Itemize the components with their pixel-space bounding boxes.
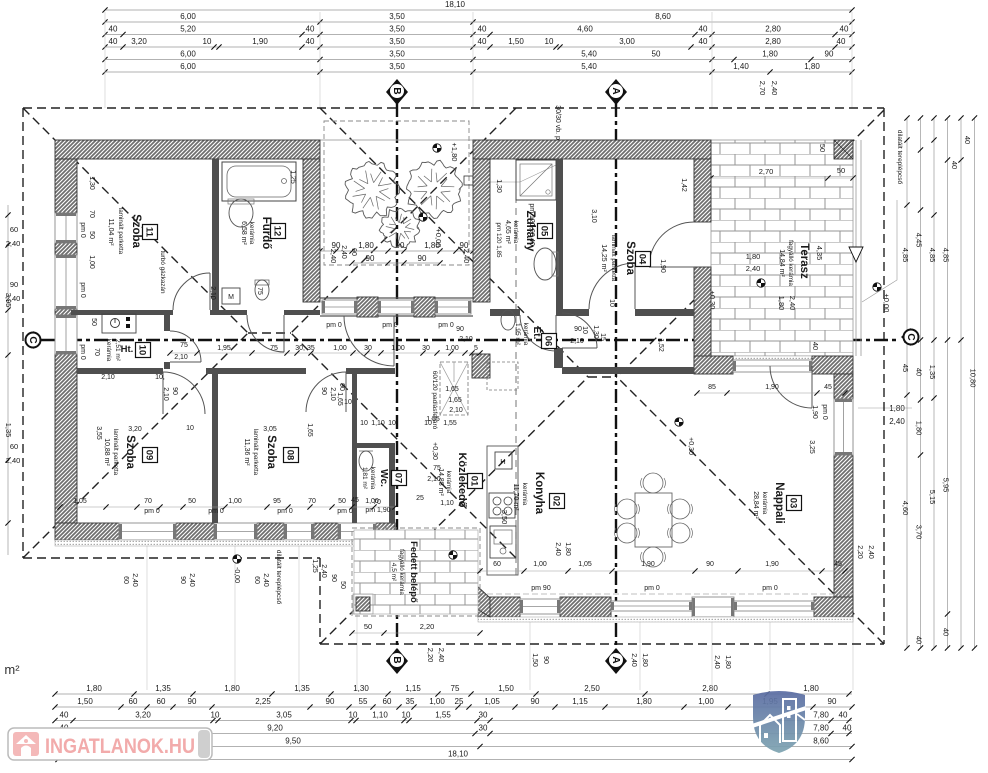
svg-text:3,05: 3,05 [263, 426, 277, 433]
guide line [234, 546, 236, 690]
porch eave line [320, 139, 473, 141]
wall nappali-terrace pier [694, 356, 733, 374]
right dimension line [974, 118, 976, 648]
svg-text:2,50: 2,50 [584, 684, 600, 693]
guide line [769, 617, 771, 690]
svg-text:70: 70 [144, 498, 152, 505]
svg-text:dilatált tereplépcső: dilatált tereplépcső [896, 130, 903, 185]
right dimension line [947, 118, 949, 648]
svg-text:A: A [610, 656, 621, 663]
wall szoba09-08 divider [212, 374, 218, 523]
svg-text:5,95: 5,95 [942, 478, 951, 493]
svg-text:2,40: 2,40 [867, 545, 874, 559]
guide line [319, 12, 321, 108]
svg-text:4,60: 4,60 [577, 25, 593, 34]
svg-text:50: 50 [338, 498, 346, 505]
chair [643, 473, 663, 493]
svg-text:60: 60 [129, 697, 138, 706]
svg-text:C: C [27, 336, 38, 343]
svg-text:pm 0: pm 0 [762, 585, 778, 592]
svg-text:1,00: 1,00 [228, 498, 242, 505]
wall zuhany-szoba04 divider [556, 159, 563, 313]
svg-text:pm 0: pm 0 [326, 322, 342, 329]
room number 08 [284, 448, 299, 463]
guide line [104, 12, 106, 108]
wall porch pier 1 [357, 297, 378, 317]
svg-text:3,50: 3,50 [500, 510, 509, 525]
svg-text:+0,30: +0,30 [687, 437, 694, 455]
wall corridor bottom 2 [206, 368, 306, 374]
svg-text:3,00: 3,00 [619, 37, 635, 46]
svg-text:18,10: 18,10 [448, 750, 469, 759]
chair [670, 523, 690, 543]
dimension chain top line 5 [105, 59, 852, 61]
svg-text:-0,00: -0,00 [233, 567, 240, 583]
svg-text:3,25: 3,25 [808, 440, 815, 454]
svg-text:pm 120: pm 120 [528, 203, 535, 226]
svg-text:2,10: 2,10 [174, 354, 188, 361]
watermark shield [752, 691, 806, 753]
wall corridor top stub [210, 310, 247, 315]
svg-text:90: 90 [366, 254, 375, 263]
svg-text:5,15: 5,15 [928, 490, 937, 505]
terrace insulation strip [708, 356, 853, 362]
dimension chain top line 4 [105, 46, 852, 48]
svg-text:30: 30 [479, 711, 488, 720]
svg-text:2,25: 2,25 [255, 697, 271, 706]
roof hip inner-top [291, 108, 516, 333]
tree 2 [407, 160, 463, 218]
svg-text:laminált parketta: laminált parketta [610, 235, 617, 282]
svg-text:75: 75 [256, 287, 263, 295]
dimension chain bottom line 3 [55, 720, 852, 722]
svg-text:30: 30 [364, 345, 372, 352]
svg-text:1,00: 1,00 [445, 345, 459, 352]
svg-text:4,35: 4,35 [815, 246, 824, 261]
wall left segment [55, 309, 77, 315]
svg-text:1,00: 1,00 [88, 255, 95, 269]
svg-text:1,65: 1,65 [445, 386, 459, 393]
svg-text:11: 11 [144, 227, 155, 238]
svg-text:4,85: 4,85 [901, 248, 910, 263]
svg-text:Terasz: Terasz [798, 243, 810, 279]
svg-text:kerámia: kerámia [369, 467, 376, 490]
svg-text:fagyálló kerámia: fagyálló kerámia [398, 549, 405, 595]
svg-text:07: 07 [393, 473, 404, 484]
right tick [958, 645, 963, 650]
svg-text:40: 40 [915, 368, 924, 376]
wall porch-right [473, 159, 490, 302]
svg-text:1,10: 1,10 [371, 420, 385, 427]
wall bottom-right segment [814, 597, 853, 617]
logo box [8, 728, 212, 760]
porch dim row 2 [352, 262, 440, 264]
right dimension line [933, 118, 935, 648]
wall wc top [352, 443, 390, 448]
window left 2 [55, 255, 77, 309]
right tick [918, 397, 923, 402]
svg-text:40: 40 [942, 628, 951, 636]
svg-text:40: 40 [837, 37, 846, 46]
svg-text:Szoba: Szoba [624, 241, 636, 275]
svg-text:40: 40 [950, 161, 959, 169]
svg-text:70: 70 [93, 348, 100, 356]
room number 11 [143, 225, 158, 240]
level marker terrace [757, 279, 765, 287]
guide line [711, 617, 713, 690]
svg-text:50: 50 [90, 318, 97, 326]
section line A-A [615, 103, 617, 650]
shower tray [516, 160, 556, 200]
svg-text:1,30: 1,30 [88, 176, 95, 190]
svg-text:40: 40 [528, 238, 535, 246]
terrace step edge 2 [860, 140, 862, 356]
wall nappali right upper [834, 374, 853, 399]
section marker C right [901, 328, 911, 346]
guide line [472, 12, 474, 108]
svg-text:2,40: 2,40 [262, 573, 269, 587]
wall zuhany-szoba04 bottom A [490, 309, 520, 316]
right tick [931, 645, 936, 650]
svg-text:1,10: 1,10 [372, 711, 388, 720]
svg-text:1,00: 1,00 [533, 561, 547, 568]
wall top-left block [55, 140, 320, 159]
svg-text:10: 10 [186, 425, 194, 432]
svg-text:Ht.: Ht. [121, 344, 134, 355]
insulation strip bottom-right [478, 617, 853, 622]
svg-text:40: 40 [963, 136, 972, 144]
svg-text:95: 95 [273, 498, 281, 505]
svg-text:3,20: 3,20 [128, 426, 142, 433]
wall left segment [55, 159, 77, 213]
svg-text:90: 90 [171, 387, 178, 395]
dimension chain top line 2 [105, 21, 852, 23]
svg-text:±0,00: ±0,00 [882, 294, 891, 313]
svg-text:90: 90 [188, 697, 197, 706]
window bottom-left [119, 523, 176, 540]
svg-text:1,65: 1,65 [306, 423, 313, 437]
svg-text:1,00: 1,00 [333, 345, 347, 352]
wall nappali-terrace corner [812, 356, 853, 374]
svg-text:7,80: 7,80 [813, 724, 829, 733]
svg-text:2,40: 2,40 [6, 294, 21, 303]
svg-text:2,40: 2,40 [320, 564, 327, 578]
guide line [851, 12, 853, 108]
porch wall line [320, 297, 473, 299]
porch pillar small [464, 176, 473, 185]
svg-text:1,50: 1,50 [531, 653, 538, 667]
terrace door opening [733, 360, 812, 372]
right tick [918, 452, 923, 457]
svg-text:4,85: 4,85 [942, 248, 951, 263]
svg-text:1,80: 1,80 [636, 697, 652, 706]
svg-text:pm 0: pm 0 [79, 344, 86, 360]
svg-text:70: 70 [373, 499, 381, 506]
wall kitchen top-left pier [472, 354, 490, 378]
svg-text:1,15: 1,15 [405, 684, 421, 693]
roof hip inner-bottom [291, 333, 516, 558]
svg-text:10,: 10, [155, 374, 165, 381]
svg-text:1,80: 1,80 [889, 404, 905, 413]
nappali top dim line [697, 392, 845, 394]
wall bottom-left segment [257, 523, 284, 540]
section line B-B [396, 103, 398, 650]
right tick [945, 157, 950, 162]
svg-text:1,55: 1,55 [443, 420, 457, 427]
svg-text:2,40: 2,40 [131, 573, 138, 587]
svg-text:2,40: 2,40 [6, 239, 21, 248]
fedett belepo pillar [356, 597, 370, 611]
svg-text:2,10: 2,10 [329, 387, 336, 401]
toilet zuhany [501, 310, 515, 330]
wall bottom-right segment [560, 597, 611, 617]
svg-text:kerámia: kerámia [761, 492, 768, 515]
room number 04 [636, 252, 651, 267]
washbasin zuhany [534, 248, 556, 280]
svg-text:09: 09 [144, 450, 155, 461]
svg-text:pm 0: pm 0 [644, 585, 660, 592]
door et [562, 313, 597, 348]
wall bottom-right segment [478, 597, 520, 617]
svg-text:3,10: 3,10 [590, 209, 597, 223]
wall porch-left [303, 159, 320, 302]
door szoba08 [306, 372, 346, 412]
svg-text:40: 40 [109, 37, 118, 46]
right tick [945, 115, 950, 120]
level marker porch 2 [419, 213, 427, 221]
kitchen stove [489, 493, 515, 518]
svg-text:70: 70 [88, 210, 95, 218]
right tick [931, 212, 936, 217]
svg-text:2,70: 2,70 [759, 167, 774, 176]
svg-text:Szoba: Szoba [124, 435, 136, 469]
roof outline right [883, 108, 885, 644]
svg-text:06: 06 [543, 336, 554, 347]
svg-text:40: 40 [915, 636, 924, 644]
fedett belepo outline [352, 528, 480, 616]
svg-text:75: 75 [270, 345, 278, 352]
wall zuhany-et stub [554, 348, 563, 368]
svg-text:INGATLANOK.HU: INGATLANOK.HU [45, 734, 195, 758]
svg-text:4,85: 4,85 [928, 248, 937, 263]
svg-text:dilatált tereplépcső: dilatált tereplépcső [275, 550, 282, 605]
svg-text:55: 55 [359, 697, 368, 706]
guide line [298, 546, 300, 690]
dimension chain top line 1 (18,10) [105, 9, 852, 11]
szoba09 dim line [60, 506, 395, 508]
svg-text:30, 35: 30, 35 [295, 345, 315, 352]
dining table [635, 493, 672, 547]
svg-text:12: 12 [272, 226, 283, 237]
roof outline left [22, 108, 24, 558]
svg-text:01: 01 [469, 476, 480, 487]
right tick [931, 115, 936, 120]
svg-text:3,50: 3,50 [389, 12, 405, 21]
svg-text:03: 03 [788, 498, 799, 509]
svg-text:1,05: 1,05 [578, 561, 592, 568]
svg-text:1,30: 1,30 [353, 684, 369, 693]
section marker B top [386, 79, 408, 105]
svg-text:90: 90 [418, 254, 427, 263]
svg-text:11,36 m²: 11,36 m² [243, 438, 250, 466]
room number 05 [538, 224, 553, 239]
svg-text:90: 90 [338, 383, 345, 391]
wall nappali top [562, 367, 694, 374]
svg-text:3,50: 3,50 [389, 50, 405, 59]
door szoba09 [163, 372, 205, 414]
svg-text:3,50: 3,50 [389, 37, 405, 46]
svg-text:30: 30 [422, 345, 430, 352]
svg-text:10: 10 [424, 420, 432, 427]
svg-text:1,80: 1,80 [424, 241, 440, 250]
wall right mid [694, 267, 711, 367]
right tick [945, 611, 950, 616]
guide line [529, 617, 531, 690]
left dimension line [7, 205, 9, 555]
guide line [711, 12, 713, 108]
svg-text:1,81 m²: 1,81 m² [361, 467, 368, 490]
svg-text:1,00: 1,00 [698, 697, 714, 706]
wall wc right [389, 443, 395, 523]
svg-text:3,05: 3,05 [276, 711, 292, 720]
leader dilatalt [862, 200, 897, 302]
svg-text:Szoba: Szoba [130, 214, 142, 248]
svg-text:1,90: 1,90 [765, 384, 779, 391]
boiler [102, 314, 136, 333]
svg-text:1,80: 1,80 [746, 252, 761, 261]
right tick [931, 395, 936, 400]
svg-text:10: 10 [388, 420, 396, 427]
svg-text:90: 90 [10, 280, 18, 289]
svg-text:2,40: 2,40 [788, 296, 797, 311]
svg-text:1,80: 1,80 [915, 421, 924, 436]
level marker nappali [675, 418, 683, 426]
svg-text:08: 08 [285, 450, 296, 461]
svg-text:1,80: 1,80 [564, 542, 571, 556]
svg-text:1,80: 1,80 [86, 684, 102, 693]
svg-text:1,05: 1,05 [73, 498, 87, 505]
svg-text:1,50: 1,50 [77, 697, 93, 706]
kitchen H box [495, 452, 512, 469]
svg-text:+0,30: +0,30 [431, 442, 438, 460]
svg-text:50: 50 [837, 166, 845, 175]
svg-text:3,50: 3,50 [389, 25, 405, 34]
svg-text:4,5 m²: 4,5 m² [390, 563, 397, 582]
svg-text:pm 0: pm 0 [821, 404, 828, 420]
svg-text:8,60: 8,60 [813, 737, 829, 746]
svg-text:10,80: 10,80 [969, 369, 978, 388]
right tick [904, 202, 909, 207]
svg-text:Nappali: Nappali [773, 482, 785, 524]
insulation strip bottom-left [55, 540, 400, 546]
wall bottom-left segment [176, 523, 214, 540]
right dimension line [920, 118, 922, 648]
svg-text:45: 45 [834, 561, 842, 568]
svg-text:04: 04 [637, 254, 648, 265]
kitchen upper cabinet [487, 362, 518, 390]
wall nappali right lower [834, 455, 853, 614]
svg-text:11,04 m²: 11,04 m² [107, 218, 114, 246]
room number 06 [542, 334, 557, 349]
roof outline bottom-right [320, 643, 884, 645]
svg-text:2,40: 2,40 [437, 648, 446, 663]
svg-text:50: 50 [339, 581, 346, 589]
svg-text:40: 40 [840, 25, 849, 34]
svg-text:1,30: 1,30 [592, 325, 599, 339]
svg-text:60: 60 [157, 697, 166, 706]
right dimension line [906, 118, 908, 648]
svg-text:5,40: 5,40 [581, 50, 597, 59]
svg-text:50: 50 [88, 231, 95, 239]
right tick [918, 115, 923, 120]
wall ht top [71, 310, 173, 315]
svg-text:90: 90 [179, 576, 186, 584]
roof ridge right [588, 376, 617, 378]
porch dim row 1 [320, 250, 473, 252]
wall szoba08-wc divider [352, 374, 357, 523]
wall bottom-left segment [376, 523, 395, 540]
bathtub [222, 162, 296, 201]
roof ridge left [248, 332, 291, 334]
window bottom-left [214, 523, 257, 540]
chair [617, 499, 637, 519]
svg-text:1,65: 1,65 [336, 392, 343, 406]
section marker A bottom [605, 648, 627, 674]
right tick [958, 337, 963, 342]
right tick [918, 645, 923, 650]
eave dashed line bottom [478, 593, 853, 595]
svg-text:40: 40 [843, 724, 852, 733]
svg-text:1,55: 1,55 [435, 711, 451, 720]
svg-text:1,15: 1,15 [572, 697, 588, 706]
svg-text:60: 60 [253, 576, 260, 584]
washbasin wc [359, 451, 373, 471]
dim line belepo [352, 632, 480, 634]
terrace brick paving [711, 140, 853, 356]
svg-text:2,40: 2,40 [554, 542, 561, 556]
svg-text:1,80: 1,80 [224, 684, 240, 693]
svg-text:2,40: 2,40 [462, 249, 471, 264]
svg-text:05: 05 [539, 226, 550, 237]
svg-text:2,10: 2,10 [570, 338, 584, 345]
svg-text:2,40: 2,40 [6, 456, 21, 465]
dimension chain bottom line 2 [55, 706, 852, 708]
window left 1 [55, 213, 77, 243]
dimension chain top line 3 [105, 34, 852, 36]
wall corridor bottom 1 [77, 368, 163, 374]
right tick [931, 137, 936, 142]
svg-text:fagyálló kerámia: fagyálló kerámia [787, 240, 794, 286]
nappali dim line [480, 570, 852, 572]
svg-text:50: 50 [364, 622, 372, 631]
room number 01 [468, 474, 483, 489]
svg-text:1,10: 1,10 [440, 500, 454, 507]
svg-text:2,20: 2,20 [426, 648, 435, 663]
window bottom kitchen [520, 599, 560, 614]
door szoba04 [589, 263, 635, 309]
svg-text:9,20: 9,20 [267, 724, 283, 733]
svg-text:40: 40 [699, 37, 708, 46]
svg-text:10: 10 [608, 299, 615, 307]
wall szoba04 bottom C [635, 309, 694, 316]
svg-text:kerámia: kerámia [521, 483, 528, 506]
svg-text:10: 10 [344, 399, 352, 406]
svg-text:6,00: 6,00 [180, 62, 196, 71]
svg-text:laminált parketta: laminált parketta [252, 429, 259, 476]
tree 1 [345, 162, 400, 219]
svg-text:1,90: 1,90 [811, 405, 818, 419]
right dimension line [960, 118, 962, 648]
